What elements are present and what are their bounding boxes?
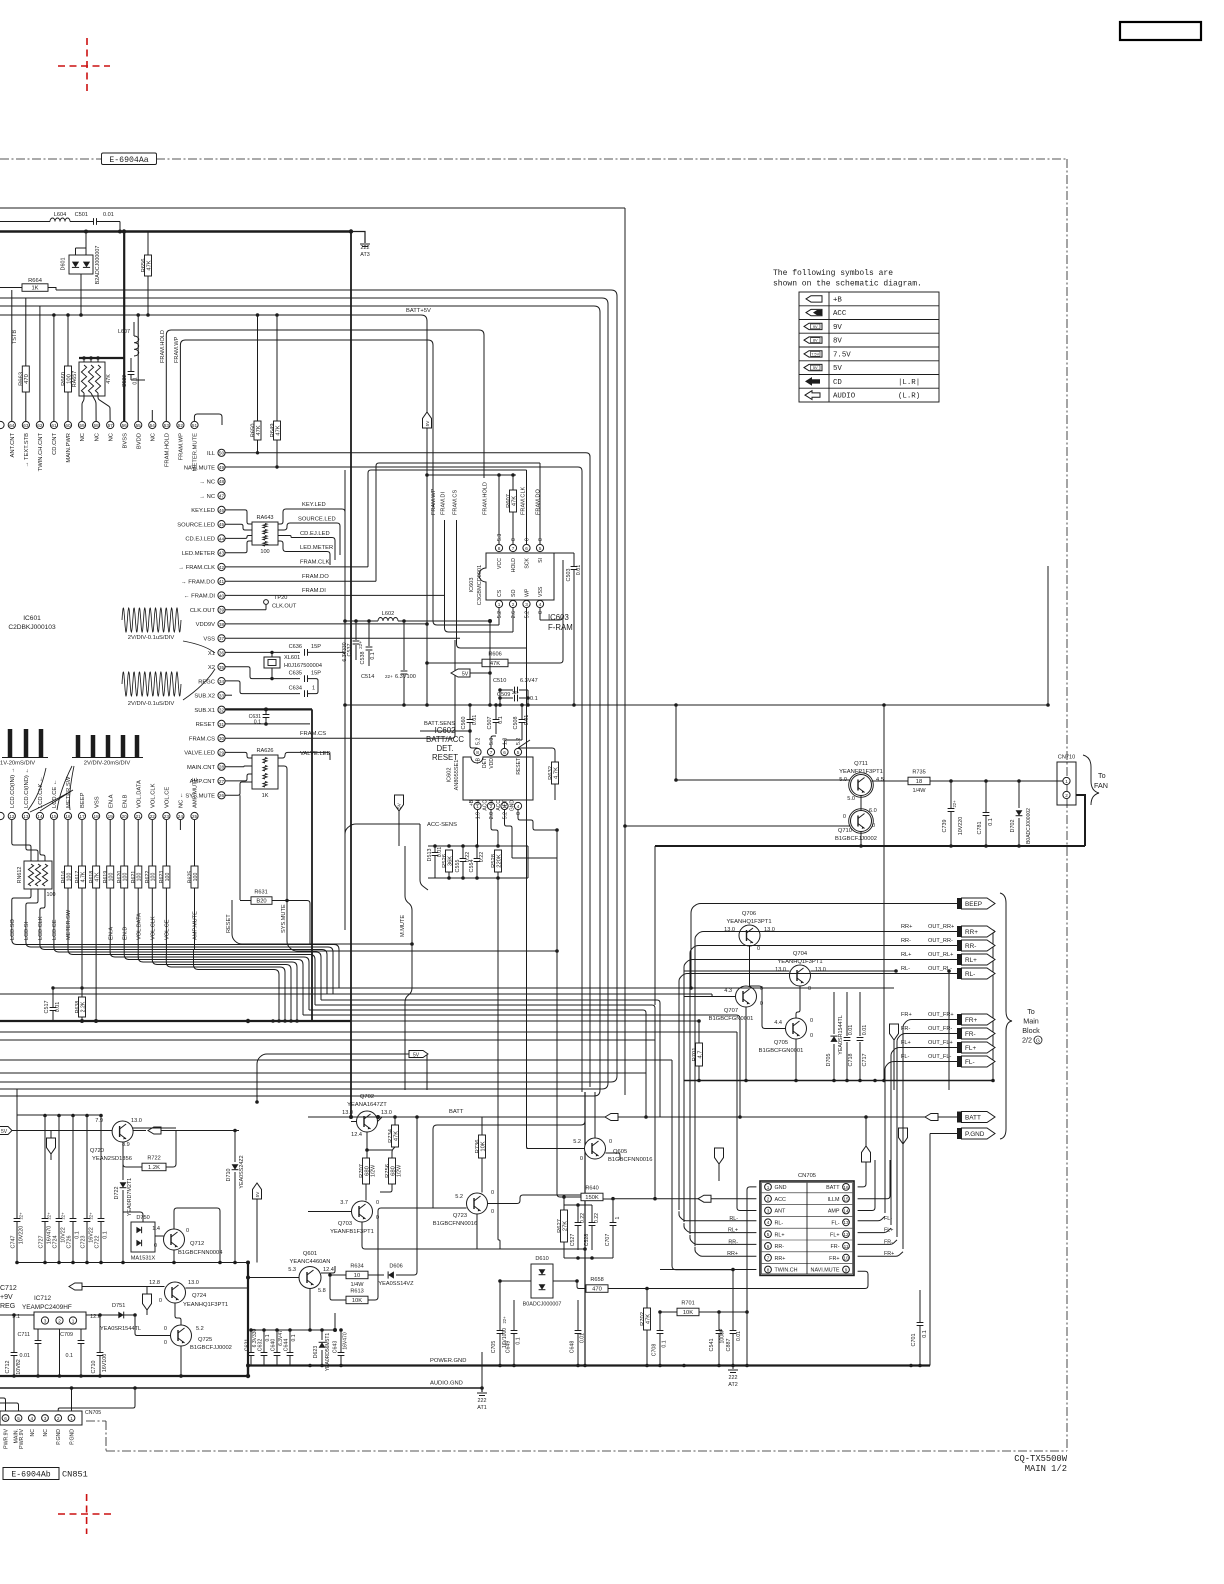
wire CN705 ANT in <box>737 1205 756 1211</box>
svg-text:M.MUTE: M.MUTE <box>400 915 406 937</box>
wire X1 pin36 <box>225 651 300 653</box>
wire pin17 to R617 <box>81 820 83 866</box>
svg-text:FRAM.WP: FRAM.WP <box>431 488 437 515</box>
svg-text:R632: R632 <box>548 766 554 780</box>
svg-text:→ FRAM.CLK: → FRAM.CLK <box>178 565 215 571</box>
svg-text:2V/DIV-0.1uS/DIV: 2V/DIV-0.1uS/DIV <box>128 635 175 641</box>
node 5V mid flag joint <box>488 703 492 707</box>
svg-text:0: 0 <box>516 812 522 815</box>
svg-text:FR-: FR- <box>831 1244 840 1250</box>
IC602 pin 1 <box>474 802 481 809</box>
wire pin23 to R623 <box>165 820 167 866</box>
svg-text:0: 0 <box>872 823 875 829</box>
svg-text:5.2: 5.2 <box>573 1139 581 1145</box>
svg-text:C739: C739 <box>942 820 948 833</box>
svg-text:DET.: DET. <box>437 744 454 753</box>
node X2 xtal <box>270 677 273 680</box>
capacitor C621 6.3V330 <box>250 1330 252 1352</box>
svg-text:R664: R664 <box>28 278 43 284</box>
svg-text:FL-: FL- <box>831 1221 839 1227</box>
IC601 pin 30 <box>218 735 225 742</box>
diode D606 <box>388 1271 394 1278</box>
node RESET <box>265 723 267 725</box>
capacitor C887 0.01 <box>732 1270 734 1330</box>
svg-text:AMP.CNT: AMP.CNT <box>190 779 216 785</box>
svg-text:FR+: FR+ <box>901 1012 912 1018</box>
power arrow 5V (BATT+5V) <box>423 412 432 428</box>
waveform X2 pointer <box>183 669 215 700</box>
node x345 <box>343 619 347 623</box>
svg-text:6.3V47: 6.3V47 <box>520 678 538 684</box>
wire serial bus A <box>12 928 339 988</box>
wire ACC block right <box>527 846 529 878</box>
wire IC603 loop2 <box>445 520 514 632</box>
wire R623 to bus <box>165 888 167 955</box>
node R701b left <box>658 1310 662 1314</box>
svg-text:RESET: RESET <box>196 722 216 728</box>
node C501 right <box>84 230 88 234</box>
chassis mark 222/AT2 <box>732 1366 734 1370</box>
node D610 left <box>498 1279 502 1283</box>
svg-text:BATT: BATT <box>826 1185 840 1191</box>
svg-text:C501: C501 <box>75 212 88 218</box>
IC601 pin 56 <box>121 421 128 428</box>
wire BVSS thick <box>123 232 125 422</box>
wire FR- line <box>897 1034 957 1045</box>
wire R735 right <box>930 780 1063 782</box>
node C541 top <box>717 1310 721 1314</box>
IC601 pin 39 <box>218 606 225 613</box>
svg-text:14: 14 <box>37 814 43 819</box>
wire vert 500 D610 <box>498 878 500 1249</box>
wire VDD9V pin38 <box>225 623 427 625</box>
IC603 pin 4 <box>536 600 543 607</box>
svg-text:0: 0 <box>609 1139 612 1145</box>
wire TWIN drop CN705 <box>672 1060 733 1270</box>
wire ACC-SENS rail <box>345 824 420 846</box>
svg-text:7.9: 7.9 <box>95 1118 103 1124</box>
svg-text:FL-: FL- <box>901 1054 910 1060</box>
wire CD.EJ.LED pin44 <box>225 536 252 539</box>
svg-text:12.8: 12.8 <box>149 1280 160 1286</box>
wire D610 left <box>500 1280 531 1282</box>
wire RR- bus <box>315 1005 655 1040</box>
svg-text:R658: R658 <box>590 1277 603 1283</box>
wire RR- line <box>690 946 957 956</box>
regulator IC712 <box>34 1312 86 1329</box>
IC601 pin 36 <box>218 649 225 656</box>
svg-text:YEANHQ1F3PT1: YEANHQ1F3PT1 <box>183 1302 228 1308</box>
svg-text:R634: R634 <box>350 1264 363 1270</box>
svg-text:LCD.CI(IND) ←: LCD.CI(IND) ← <box>24 768 30 808</box>
signal arrow up D <box>862 1146 871 1162</box>
wire R658 left <box>577 1281 586 1289</box>
diode D705 <box>833 992 835 1034</box>
wire Q711 collector left <box>676 779 851 781</box>
svg-text:VOL.CE: VOL.CE <box>165 919 171 940</box>
output flag BATT <box>957 1112 962 1123</box>
svg-text:C709: C709 <box>60 1332 73 1338</box>
wire Q605 down <box>606 1153 621 1160</box>
svg-text:0.1: 0.1 <box>254 720 261 726</box>
IC601 pin 29 <box>218 749 225 756</box>
IC601 pin 35 <box>218 663 225 670</box>
svg-text:36K: 36K <box>447 856 453 866</box>
svg-text:DET: DET <box>503 800 509 810</box>
wire SO pin2 down <box>512 608 514 632</box>
wire R616 to bus <box>67 888 69 945</box>
wire SYS.MUTE pin26 <box>225 782 252 795</box>
svg-text:ANT: ANT <box>775 1209 786 1215</box>
svg-text:100: 100 <box>123 873 129 882</box>
svg-text:56: 56 <box>122 423 128 428</box>
svg-text:5V: 5V <box>425 420 430 427</box>
svg-text:D722: D722 <box>114 1187 120 1200</box>
svg-text:8: 8 <box>476 750 479 755</box>
node mid rail dots <box>498 688 502 692</box>
svg-text:0.1: 0.1 <box>370 652 376 659</box>
node C560 <box>468 703 472 707</box>
wire IC603 right drop <box>1047 566 1049 705</box>
wire RLlead RL+ <box>683 969 685 1222</box>
wire Q712 eio <box>173 1250 175 1263</box>
svg-text:FL+: FL+ <box>830 1232 839 1238</box>
svg-text:EN.B: EN.B <box>122 794 128 808</box>
wire CN705 FR- out <box>858 1240 897 1245</box>
svg-text:HOLD: HOLD <box>511 558 517 573</box>
svg-text:10K: 10K <box>352 1298 362 1304</box>
svg-text:1: 1 <box>312 686 315 692</box>
svg-text:R722: R722 <box>147 1156 160 1162</box>
connector CN705 body <box>760 1181 854 1275</box>
svg-text:CN710: CN710 <box>1058 755 1075 761</box>
node Q704-971 <box>894 969 898 973</box>
svg-text:6: 6 <box>503 750 506 755</box>
wire R736 top <box>481 1117 483 1135</box>
IC602 pin 6 <box>501 748 508 755</box>
svg-text:10V220: 10V220 <box>958 817 964 836</box>
wire RA643 out SOURCE.LED <box>278 523 340 555</box>
svg-text:9: 9 <box>845 1267 848 1272</box>
wire rail right vert <box>992 932 994 1081</box>
svg-text:Block: Block <box>1022 1026 1040 1035</box>
node C503 rail joint <box>572 703 576 707</box>
svg-text:SUB.X1: SUB.X1 <box>194 708 215 714</box>
wire acc right rail <box>556 830 558 902</box>
IC601 pin 31 <box>218 720 225 727</box>
svg-text:24: 24 <box>178 814 184 819</box>
svg-text:4: 4 <box>30 1416 33 1421</box>
wire R634 left <box>330 1274 346 1276</box>
svg-text:FRAM.CS: FRAM.CS <box>189 736 215 742</box>
wire CN705 ACC left <box>613 1198 698 1200</box>
svg-text:0.1: 0.1 <box>291 1334 297 1341</box>
svg-text:Main: Main <box>1023 1017 1039 1026</box>
wire R631 right <box>272 901 310 945</box>
svg-text:680: 680 <box>364 1166 370 1176</box>
IC601 pin 38 <box>218 620 225 627</box>
svg-text:C555: C555 <box>455 860 461 873</box>
wire bus joins <box>110 945 309 1011</box>
svg-text:FAN: FAN <box>1094 781 1108 790</box>
svg-text:C722: C722 <box>95 1236 101 1249</box>
svg-text:LED.METER: LED.METER <box>182 551 215 557</box>
wire D710 bottom <box>234 1208 236 1263</box>
svg-text:1.8: 1.8 <box>503 738 509 745</box>
svg-text:15P: 15P <box>311 671 321 677</box>
waveform LCD bars 1 <box>8 729 13 757</box>
nodes fan return <box>859 844 863 848</box>
svg-text:0: 0 <box>159 1298 162 1304</box>
svg-text:VOL.CLK: VOL.CLK <box>151 916 157 940</box>
svg-text:0.22: 0.22 <box>479 852 485 863</box>
svg-text:R701: R701 <box>681 1301 694 1307</box>
wire bus joins3 <box>138 950 297 1022</box>
wire SUB.X1 pin32 thick <box>225 708 312 710</box>
svg-text:4.7K: 4.7K <box>553 767 559 779</box>
svg-text:RR-: RR- <box>965 943 976 950</box>
svg-text:100: 100 <box>66 873 72 882</box>
wire Q723 base left <box>433 1207 467 1209</box>
svg-text:P.GND: P.GND <box>965 1131 985 1138</box>
svg-text:5: 5 <box>17 1416 20 1421</box>
diode D623 <box>321 1330 323 1340</box>
transistor Q702 <box>357 1111 378 1132</box>
resistor R656 47K <box>145 255 152 276</box>
svg-text:|L.R|: |L.R| <box>898 379 920 387</box>
wire pin20 to R620 <box>123 820 125 866</box>
svg-text:27: 27 <box>219 779 225 784</box>
svg-text:D606: D606 <box>389 1264 402 1270</box>
capacitor C636 15P <box>304 649 306 656</box>
capacitor C632 0.1 <box>263 1330 265 1352</box>
power arrow 5V right <box>253 1183 262 1199</box>
wire CN705 ILLM out <box>858 1160 890 1199</box>
IC601 pin 52 <box>177 421 184 428</box>
transistor Q704 <box>790 965 811 986</box>
capacitor C508 0.01 <box>521 705 523 719</box>
svg-text:0: 0 <box>164 1326 167 1332</box>
node R613 right <box>377 1207 379 1209</box>
svg-text:5.8: 5.8 <box>318 1288 326 1294</box>
svg-text:60: 60 <box>65 423 71 428</box>
svg-text:B20: B20 <box>256 899 266 905</box>
svg-text:IC602: IC602 <box>447 768 453 783</box>
svg-text:YEANHQ1F3PT1: YEANHQ1F3PT1 <box>726 919 771 925</box>
svg-text:E-6904Ab: E-6904Ab <box>11 1470 50 1480</box>
svg-text:OUT_FR+: OUT_FR+ <box>928 1012 954 1018</box>
node SYS.MUTE-557 <box>555 949 559 953</box>
svg-text:5.3: 5.3 <box>489 738 495 745</box>
resistor R528 220K <box>495 850 502 872</box>
svg-text:NC: NC <box>43 1429 49 1437</box>
wire IC712 in <box>0 1314 34 1316</box>
svg-text:EN.A: EN.A <box>108 927 114 940</box>
svg-text:AT2: AT2 <box>728 1382 738 1388</box>
svg-text:4: 4 <box>767 1220 770 1225</box>
svg-text:VOL.CE: VOL.CE <box>165 787 171 808</box>
svg-text:FRAM.DI: FRAM.DI <box>302 588 326 594</box>
svg-text:5: 5 <box>539 546 542 551</box>
wire R701b left <box>660 1311 677 1313</box>
node C507/C508 <box>494 703 498 707</box>
capacitor C724 10V22 <box>58 1115 60 1218</box>
svg-text:47K: 47K <box>645 1314 651 1324</box>
svg-text:PWR.9V: PWR.9V <box>4 1428 10 1448</box>
svg-text:C503: C503 <box>566 569 572 582</box>
svg-text:NC: NC <box>94 433 100 441</box>
svg-text:FRAM.WP: FRAM.WP <box>174 336 180 363</box>
wire FR+ line <box>903 1020 957 1031</box>
node R607 rail <box>511 473 515 477</box>
svg-text:17: 17 <box>79 814 85 819</box>
signal arrow down E <box>47 1138 56 1154</box>
wire Q605 base <box>584 1148 586 1150</box>
wire 1021 cont <box>351 1020 699 1022</box>
svg-text:0: 0 <box>538 538 544 541</box>
svg-text:C528: C528 <box>584 1234 590 1247</box>
svg-text:NC: NC <box>108 433 114 441</box>
svg-text:Q725: Q725 <box>198 1337 212 1343</box>
wire R656 up <box>147 232 149 256</box>
IC603 pin 5 <box>536 544 543 551</box>
IC601 pin 21 <box>135 812 142 819</box>
wire D606 right <box>396 1117 417 1275</box>
svg-text:B1GBCFJJ0002: B1GBCFJJ0002 <box>835 836 877 842</box>
svg-text:BEEP: BEEP <box>965 901 982 908</box>
wire Q704 down to Q705 <box>796 986 800 1018</box>
wire mid horizontal 1060 <box>0 1059 672 1061</box>
svg-text:13.0: 13.0 <box>764 927 775 933</box>
svg-text:B1GBCFNN0004: B1GBCFNN0004 <box>178 1250 223 1256</box>
svg-text:C644: C644 <box>284 1339 290 1352</box>
wire L602 down <box>489 621 491 705</box>
svg-text:CD.EJ.LED: CD.EJ.LED <box>300 531 330 537</box>
wire FL+ line <box>891 1048 957 1059</box>
resistor R607 47K <box>510 490 517 512</box>
IC601 pin 54 <box>149 421 156 428</box>
wire D601 top <box>85 232 87 256</box>
svg-text:+B: +B <box>469 799 475 806</box>
svg-text:15: 15 <box>843 1197 849 1202</box>
node acc3 <box>555 828 559 832</box>
wire C555 bot <box>462 874 464 878</box>
wire mid horizontal 1032 <box>0 1031 737 1033</box>
IC601 pin 19 <box>107 812 114 819</box>
svg-text:4: 4 <box>539 602 542 607</box>
svg-text:RA657: RA657 <box>72 371 78 387</box>
svg-text:GND: GND <box>510 800 516 812</box>
svg-text:OUT_RR-: OUT_RR- <box>928 938 953 944</box>
svg-text:FRAM.DO: FRAM.DO <box>536 489 542 515</box>
svg-text:0: 0 <box>491 1209 494 1215</box>
svg-text:C517: C517 <box>44 1001 50 1014</box>
wire RESET cont <box>266 723 310 725</box>
connector CN705 strip <box>0 1411 82 1425</box>
signal arrow down B <box>715 1148 724 1164</box>
svg-text:5V: 5V <box>813 365 818 370</box>
svg-text:F-RAM: F-RAM <box>548 623 573 632</box>
svg-text:VSS: VSS <box>203 637 215 643</box>
wire pin5 up <box>518 740 530 748</box>
wire FL- feed <box>884 1072 886 1213</box>
svg-text:BATT: BATT <box>449 1109 464 1115</box>
wire Q723 base loop <box>433 1092 585 1208</box>
wire RA657 leg2 <box>91 393 96 421</box>
svg-text:H0J167500004: H0J167500004 <box>284 663 322 669</box>
IC601 pin 55 <box>135 421 142 428</box>
wire R631 left <box>240 900 251 902</box>
svg-text:LCD.CLK: LCD.CLK <box>38 916 44 940</box>
svg-text:0.1: 0.1 <box>516 1337 522 1344</box>
svg-text:FR+: FR+ <box>965 1017 978 1024</box>
CN710 bracket <box>1083 755 1099 805</box>
capacitor C644 0.1 <box>289 1330 291 1352</box>
wire R620 to bus <box>123 888 125 947</box>
svg-text:4.5: 4.5 <box>876 777 884 783</box>
svg-text:R734: R734 <box>388 1128 394 1143</box>
IC601 pin 15 <box>50 812 57 819</box>
svg-text:10K: 10K <box>480 1141 486 1151</box>
wire POWER.GND thick <box>0 1375 248 1377</box>
wire VSS pin37 <box>225 637 460 639</box>
CN705 pin 4 RL- <box>765 1219 772 1226</box>
wire R650 bottom <box>257 440 259 453</box>
wire ANT drop CN705 <box>736 1032 738 1205</box>
svg-text:18: 18 <box>916 779 922 785</box>
wire CLK.OUT pin39 <box>225 609 266 611</box>
svg-text:42: 42 <box>219 565 225 570</box>
wire L604 upper wire <box>0 221 50 223</box>
resistor R606 47K <box>482 659 508 667</box>
svg-text:MA1531X: MA1531X <box>131 1256 156 1262</box>
capacitor C718 0.01 <box>846 992 848 1036</box>
wire serial bus C <box>40 928 327 994</box>
node R634 left <box>328 1273 332 1277</box>
svg-text:YEA0SS14VZ: YEA0SS14VZ <box>378 1281 414 1287</box>
diode D722 <box>122 1142 124 1180</box>
wire R701 up <box>698 1021 700 1043</box>
inductor L607 <box>134 336 139 356</box>
wire ACC block top <box>428 845 528 847</box>
IC601 pin 41 <box>218 578 225 585</box>
svg-text:LCD.CLK ←: LCD.CLK ← <box>38 776 44 808</box>
svg-text:R640: R640 <box>585 1186 598 1192</box>
CN705 pin 9 NAVI.MUTE <box>843 1266 850 1273</box>
svg-text:D705: D705 <box>826 1054 832 1067</box>
wire FRAM.CLK riser <box>368 470 527 567</box>
IC601 pin 13 <box>22 812 29 819</box>
svg-text:2: 2 <box>1065 793 1068 798</box>
wire CN705 TWIN.CH in <box>660 1269 756 1271</box>
svg-text:DET: DET <box>482 758 488 768</box>
svg-text:RN612: RN612 <box>17 867 23 884</box>
svg-text:5V: 5V <box>462 672 469 678</box>
svg-text:NC: NC <box>30 1429 36 1437</box>
svg-text:0.1: 0.1 <box>530 696 538 702</box>
wire gnd rail up right <box>929 1134 931 1366</box>
svg-text:1.9: 1.9 <box>476 812 482 819</box>
capacitor C554 0.22 <box>476 846 478 858</box>
legend table grid <box>799 292 939 402</box>
wire Q601 base left <box>248 1277 299 1279</box>
IC601 pin 48 <box>218 478 225 485</box>
svg-text:OUT_FR-: OUT_FR- <box>928 1026 952 1032</box>
svg-text:39: 39 <box>219 608 225 613</box>
wire P.GND to flag <box>930 1133 957 1135</box>
node 1073 drop <box>644 1115 648 1119</box>
wire R658 right <box>608 1271 868 1288</box>
